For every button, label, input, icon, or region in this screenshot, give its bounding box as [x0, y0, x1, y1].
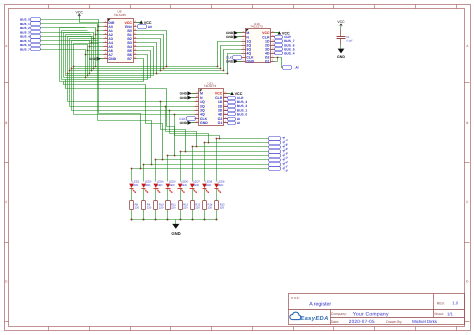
U11 pin G2 [224, 118, 228, 120]
svg-text:0.1uF: 0.1uF [346, 40, 353, 43]
wire U6 B4 [137, 47, 154, 76]
svg-text:C1: C1 [346, 36, 350, 39]
wire LED feed 1 [143, 165, 145, 182]
wire L0 to bundle [59, 28, 61, 82]
wire output row 7 [217, 138, 269, 140]
U11 pin VCC [224, 93, 228, 95]
svg-text:BUS_4: BUS_4 [284, 51, 295, 55]
wire LED feed 7 [216, 139, 218, 182]
ground symbol at C1 [338, 49, 345, 54]
wire bundle row 3 [68, 73, 228, 75]
wire L5 to U11 [69, 39, 71, 107]
U6 pin VCC [134, 22, 137, 24]
wire LED feed 3 [167, 156, 169, 182]
wire L6 to U11 [71, 41, 73, 111]
svg-text:GND: GND [180, 121, 188, 125]
wire BUS_0 from port [41, 20, 104, 27]
wire U6 B5 [137, 51, 151, 78]
U6 pin A4 [104, 42, 108, 44]
wire LED feed 5 [192, 147, 194, 182]
wire mid route 1 [64, 82, 146, 124]
wire net5 transfer to output row [166, 132, 197, 147]
svg-text:B7: B7 [127, 57, 132, 61]
port AI at U11 G1 [228, 122, 236, 125]
wire net6 drop to bundle [87, 51, 89, 76]
wire L1 to bundle [61, 31, 63, 80]
wire output row 6 [205, 142, 269, 144]
wire bundle row 6 [62, 79, 148, 81]
wire jog L5 [70, 38, 96, 40]
wire BUS_7 from port [41, 50, 104, 55]
U11 pin N [195, 97, 199, 99]
wire U6 B7 [137, 59, 144, 82]
U10 pin 4Q [242, 53, 246, 55]
U10 pin VCC [271, 32, 275, 34]
wire LED8 to R14 [204, 189, 206, 201]
resistor R13 220 [191, 201, 195, 210]
ground symbol under LEDs [175, 220, 177, 225]
port _AI [283, 66, 292, 70]
svg-text:G1: G1 [218, 121, 223, 125]
port A_5 [269, 146, 281, 149]
svg-text:220: 220 [208, 207, 213, 210]
wire R9 to gnd bus [143, 210, 145, 220]
wire U6 B0 [137, 31, 167, 67]
svg-text:TITLE:: TITLE: [291, 296, 300, 300]
capacitor C1 top pin [340, 30, 342, 37]
wire mid route 2 [66, 80, 167, 127]
svg-text:B: B [466, 121, 468, 125]
column tick marks top/bottom [48, 5, 50, 9]
svg-text:EasyEDA: EasyEDA [300, 316, 328, 322]
U10 pin 2Q [242, 45, 246, 47]
svg-text:A register: A register [309, 302, 331, 308]
svg-text:Company:: Company: [331, 312, 347, 316]
U10 pin 1Q [242, 41, 246, 43]
wire U10 G2/G1 to AI [275, 58, 283, 68]
wire U11 branch 3 [174, 115, 176, 136]
wire output row 3 [168, 155, 269, 157]
wire net1 vertical drop [97, 31, 99, 121]
U6 pin B3 [134, 42, 137, 44]
U6 pin B5 [134, 50, 137, 52]
U11 pin 4D [224, 114, 228, 116]
U10 pin CLK [242, 57, 246, 59]
wire C1 to ground [340, 46, 342, 49]
svg-text:220: 220 [195, 207, 200, 210]
wire BUS_1 from port [41, 24, 104, 31]
wire net7 transfer to output row [175, 136, 220, 139]
U10 74LS173 [246, 29, 271, 63]
wire jog L6 [72, 40, 98, 42]
U6 pin A3 [104, 38, 108, 40]
VCC flag U11 [228, 93, 231, 95]
wire output row 4 [181, 151, 269, 153]
capacitor C1 0.1uF [337, 36, 346, 38]
U11 pin 1Q [195, 101, 199, 103]
port BUS_7 at U10 [275, 40, 283, 43]
wire bundle row 2 [70, 70, 224, 72]
svg-text:Date:: Date: [331, 320, 339, 324]
resistor R11 220 [166, 201, 171, 210]
svg-text:220: 220 [159, 207, 164, 210]
U6 pin EN# [134, 26, 137, 28]
svg-text:REV:: REV: [437, 302, 445, 306]
wire L4 to U11 [67, 37, 69, 102]
port CLR U10 [275, 36, 283, 39]
svg-text:220: 220 [171, 207, 176, 210]
resistor R8 220 [130, 201, 134, 210]
svg-text:Sheet:: Sheet: [434, 312, 444, 316]
wire LED6 to R12 [180, 189, 182, 201]
U6 74LS245 [108, 19, 134, 63]
wire output row 1 [144, 164, 269, 166]
svg-text:220: 220 [147, 207, 152, 210]
VCC flag at U6 pin VCC [137, 22, 141, 24]
U10 pin G2 [271, 57, 275, 59]
svg-text:1.0: 1.0 [452, 301, 458, 306]
wire BUS_4 from port [41, 37, 104, 43]
wire LED5 to R11 [167, 189, 169, 201]
wire BUS_6 from port [41, 45, 104, 51]
port BUS_4 at U10 [275, 52, 283, 55]
port BUS_1 at U11 [228, 109, 236, 112]
port BUS_6 at U10 [275, 44, 283, 47]
U6 pin A0 [104, 26, 108, 28]
svg-text:74LS173: 74LS173 [204, 84, 217, 88]
wire net7 drop to bundle [85, 55, 87, 78]
wire LED9 to R15 [216, 189, 218, 201]
svg-text:G1: G1 [265, 60, 270, 64]
svg-text:VCC: VCC [337, 20, 345, 24]
wire U6 B1 [137, 35, 164, 69]
wire U6 B6 [137, 55, 148, 80]
port A_0 [269, 167, 281, 171]
wire L3 to bundle [65, 35, 67, 76]
wire LED3 to R9 [143, 189, 145, 201]
wire riser to U10 pin [224, 50, 242, 71]
svg-text:1/1: 1/1 [447, 311, 453, 316]
port BUS_0 at U11 [228, 113, 236, 116]
capacitor C1 bottom pin [340, 39, 342, 46]
svg-text:GND: GND [226, 60, 234, 64]
wire LED2 to R8 [131, 189, 133, 201]
wire L7 to U11 [73, 44, 75, 115]
wire VCC to U6 DIR [80, 17, 104, 23]
svg-text:220: 220 [135, 207, 140, 210]
wire net4 drop to bundle [91, 43, 93, 71]
wire net4 transfer to output row [161, 130, 186, 152]
title block frame [289, 294, 465, 325]
port CLR U11 [228, 97, 236, 100]
wire VCC to C1 [340, 27, 342, 30]
wire LED ground bus [132, 219, 217, 221]
U10 pin N [242, 36, 246, 38]
U6 pin B7 [134, 58, 137, 60]
svg-text:GND: GND [337, 55, 345, 59]
U10 pin 2D [271, 45, 275, 47]
EasyEDA logo [290, 312, 301, 319]
U10 pin 4D [271, 53, 275, 55]
wire jog L7 [74, 43, 99, 45]
U10 pin 3D [271, 49, 275, 51]
resistor R15 220 [215, 201, 219, 210]
U11 pin CLR [224, 97, 228, 99]
U6 pin B4 [134, 46, 137, 48]
wire net2 transfer to output row [146, 124, 163, 160]
svg-text:220: 220 [183, 207, 188, 210]
port A_2 [269, 159, 281, 162]
wire U11 branch 2 [169, 111, 171, 134]
wire net3 transfer to output row [167, 127, 175, 156]
U11 74LS173 [199, 89, 224, 126]
U6 pin B6 [134, 54, 137, 56]
U6 pin B0 [134, 30, 137, 32]
wire BUS_5 from port [41, 41, 104, 47]
U6 pin A1 [104, 30, 108, 32]
wire R11 to gnd bus [167, 210, 169, 220]
U11 pin M [195, 93, 199, 95]
U11 pin G1 [224, 122, 228, 124]
wire riser to U10 pin [228, 54, 242, 74]
port A_4 [269, 150, 281, 154]
wire output row 5 [193, 146, 269, 148]
U6 pin A6 [104, 50, 108, 52]
port BUS_2 at U11 [228, 105, 236, 108]
wire R13 to gnd bus [192, 210, 194, 220]
port A_1 [269, 163, 281, 167]
wire R10 to gnd bus [155, 210, 157, 220]
wire bundle row 5 [64, 77, 151, 79]
wire riser to U10 pin [218, 42, 242, 67]
U11 pin 3Q [195, 110, 199, 112]
U11 pin 3D [224, 110, 228, 112]
wire net1 transfer to output row [98, 121, 152, 165]
resistor R12 220 [179, 201, 183, 210]
wire R14 to gnd bus [204, 210, 206, 220]
wire output row 2 [156, 159, 269, 161]
wire BUS_2 from port [41, 28, 104, 35]
svg-text:GND: GND [180, 96, 188, 100]
svg-text:B: B [5, 121, 7, 125]
VCC flag U10 [275, 32, 279, 34]
U6 pin DIR [104, 22, 108, 24]
U11 pin GND [195, 122, 199, 124]
U10 pin CLR [271, 36, 275, 38]
wire net2 drop to bundle [95, 35, 97, 67]
wire LED feed 4 [180, 152, 182, 182]
svg-text:GND: GND [226, 35, 234, 39]
svg-text:GND: GND [200, 121, 208, 125]
svg-text:VCC: VCC [76, 10, 84, 14]
U10 pin M [242, 32, 246, 34]
U10 pin G1 [271, 61, 275, 63]
wire net5 drop to bundle [89, 47, 91, 74]
U11 pin 2D [224, 106, 228, 108]
port A_7 [269, 137, 281, 141]
svg-text:GND: GND [246, 60, 254, 64]
svg-text:74LS173: 74LS173 [250, 25, 263, 29]
U6 pin A7 [104, 54, 108, 56]
wire bundle row 1 [72, 68, 221, 70]
svg-text:A0: A0 [148, 25, 152, 29]
wire LED feed 0 [131, 169, 133, 182]
wire jog L4 [68, 36, 94, 38]
resistor R14 220 [203, 201, 207, 210]
resistor R9 220 [142, 201, 146, 210]
U10 pin 3Q [242, 49, 246, 51]
wire U11 branch 0 [160, 102, 162, 130]
svg-text:Drawn By:: Drawn By: [386, 320, 402, 324]
svg-text:Your Company: Your Company [353, 311, 389, 317]
U11 pin 4Q [195, 114, 199, 116]
wire BUS_3 from port [41, 33, 104, 39]
wire U6 B2 [137, 39, 161, 71]
port BUS_5 at U10 [275, 48, 283, 51]
resistor R10 220 [154, 201, 158, 210]
svg-text:Michiel Dirks: Michiel Dirks [412, 319, 438, 324]
wire U11 branch 1 [165, 107, 167, 132]
wire riser to U10 pin [221, 46, 242, 69]
svg-text:GND: GND [108, 57, 116, 61]
svg-text:2020-07-05: 2020-07-05 [349, 319, 375, 324]
wire R15 to gnd bus [216, 210, 218, 220]
port A_3 [269, 154, 281, 158]
wire R12 to gnd bus [180, 210, 182, 220]
wire LED4 to R10 [155, 189, 157, 201]
wire net0 transfer to output row [99, 114, 141, 169]
svg-text:BUS_7: BUS_7 [20, 47, 30, 51]
U11 pin 1D [224, 101, 228, 103]
U10 pin GND [242, 61, 246, 63]
wire jog L1 [62, 30, 88, 32]
wire net0 vertical drop [98, 27, 100, 114]
U6 pin B2 [134, 38, 137, 40]
wire jog L2 [64, 32, 90, 34]
wire LED7 to R13 [192, 189, 194, 201]
wire output row 0 [132, 168, 269, 170]
wire LED feed 6 [204, 143, 206, 182]
wire bundle row 0 [74, 66, 218, 68]
U11 pin 2Q [195, 106, 199, 108]
svg-text:74LS245: 74LS245 [114, 13, 127, 17]
wire bundle row 4 [66, 75, 154, 77]
wire net3 drop to bundle [93, 39, 95, 69]
U6 pin A2 [104, 34, 108, 36]
svg-text:GND: GND [171, 231, 180, 236]
U6 pin B1 [134, 34, 137, 36]
svg-text:AI: AI [237, 121, 240, 125]
U6 pin A5 [104, 46, 108, 48]
wire LED feed 2 [155, 160, 157, 182]
wire L2 to bundle [63, 33, 65, 78]
row tick marks left/right [5, 82, 9, 84]
wire bundle row 7 [60, 81, 144, 83]
wire R8 to gnd bus [131, 210, 133, 220]
port A0 at U6 EN# [138, 25, 147, 29]
U10 pin 1D [271, 41, 275, 43]
wire jog L3 [66, 34, 92, 36]
port AI at U11 G2 [228, 118, 236, 121]
wire net6 transfer to output row [170, 134, 209, 143]
svg-text:_AI: _AI [293, 65, 299, 69]
wire U6 B3 [137, 43, 157, 74]
svg-text:220: 220 [220, 207, 225, 210]
U6 pin GND [104, 58, 108, 60]
U11 pin CLK [195, 118, 199, 120]
wire jog L0 [60, 27, 86, 29]
port A_6 [269, 141, 281, 145]
port BUS_3 at U11 [228, 101, 236, 104]
